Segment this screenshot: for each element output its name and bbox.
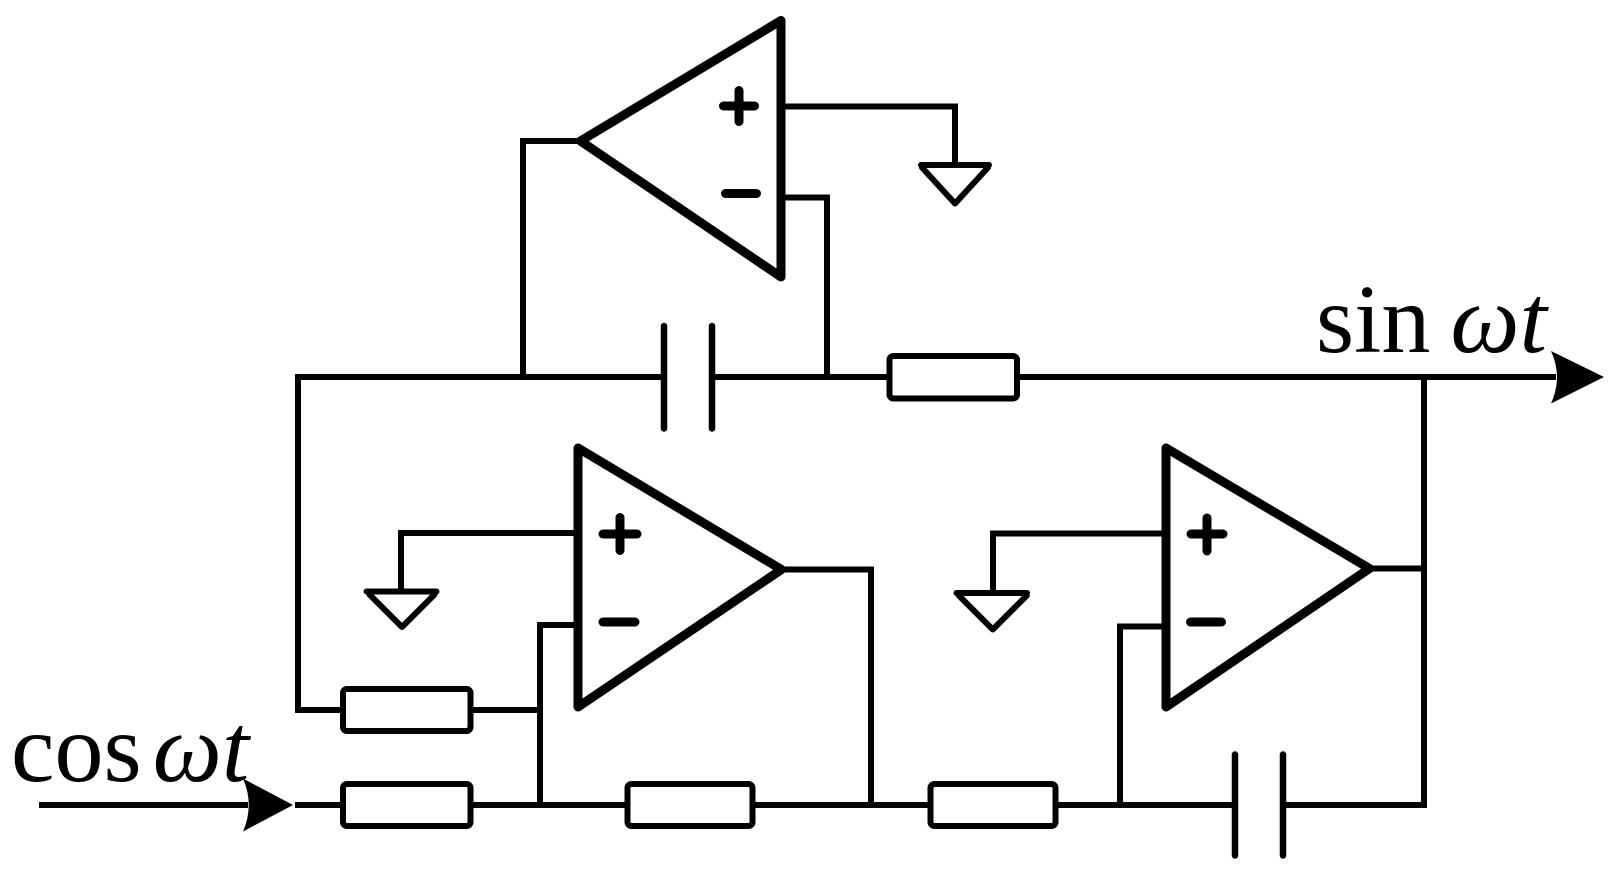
op-amp U1 <box>581 21 782 278</box>
svg-text:cosωt: cosωt <box>11 695 252 803</box>
wire U2 output <box>782 570 872 806</box>
wire top main line left <box>298 374 661 380</box>
resistor R2 <box>343 689 471 731</box>
op-amp U3 <box>1166 448 1370 707</box>
wire U2 noninverting input <box>401 533 578 589</box>
resistor R4 <box>628 784 753 826</box>
ground G2 <box>367 592 437 628</box>
wire U2 inverting input <box>540 625 578 805</box>
wire C1 to R1 <box>715 374 890 380</box>
op-amp U2 <box>578 448 782 707</box>
wire U1 noninverting input <box>781 107 955 163</box>
wire R3 to R4 <box>471 802 629 808</box>
wire R4 to R5 <box>753 802 932 808</box>
ground G1 <box>921 165 989 204</box>
wire node A down left branch <box>298 374 343 710</box>
resistor R5 <box>931 784 1056 826</box>
wire input line <box>39 802 248 808</box>
ground G3 <box>957 593 1028 630</box>
wire R1 to output arrow <box>1017 374 1556 380</box>
input arrow (cos) <box>243 779 293 832</box>
wire U1 inverting input <box>781 198 827 378</box>
resistor R3 <box>343 784 471 826</box>
wire right vertical bus <box>1421 374 1427 805</box>
wire U1 output to node A <box>523 141 578 377</box>
wire R2 to U2 inverting net <box>471 707 541 713</box>
wire C2 to right bus <box>1286 802 1427 808</box>
wire U3 inverting input <box>1120 627 1166 806</box>
svg-text:sinωt: sinωt <box>1316 266 1550 374</box>
wire U3 output <box>1373 566 1424 572</box>
capacitor C2 <box>1235 755 1283 856</box>
wire input arrow to R3 <box>295 802 344 808</box>
wire R5 to C2 <box>1056 802 1233 808</box>
output arrow (sin) <box>1551 351 1604 404</box>
capacitor C1 <box>664 326 712 429</box>
wire U3 noninverting input <box>993 534 1166 591</box>
resistor R1 <box>890 356 1018 399</box>
